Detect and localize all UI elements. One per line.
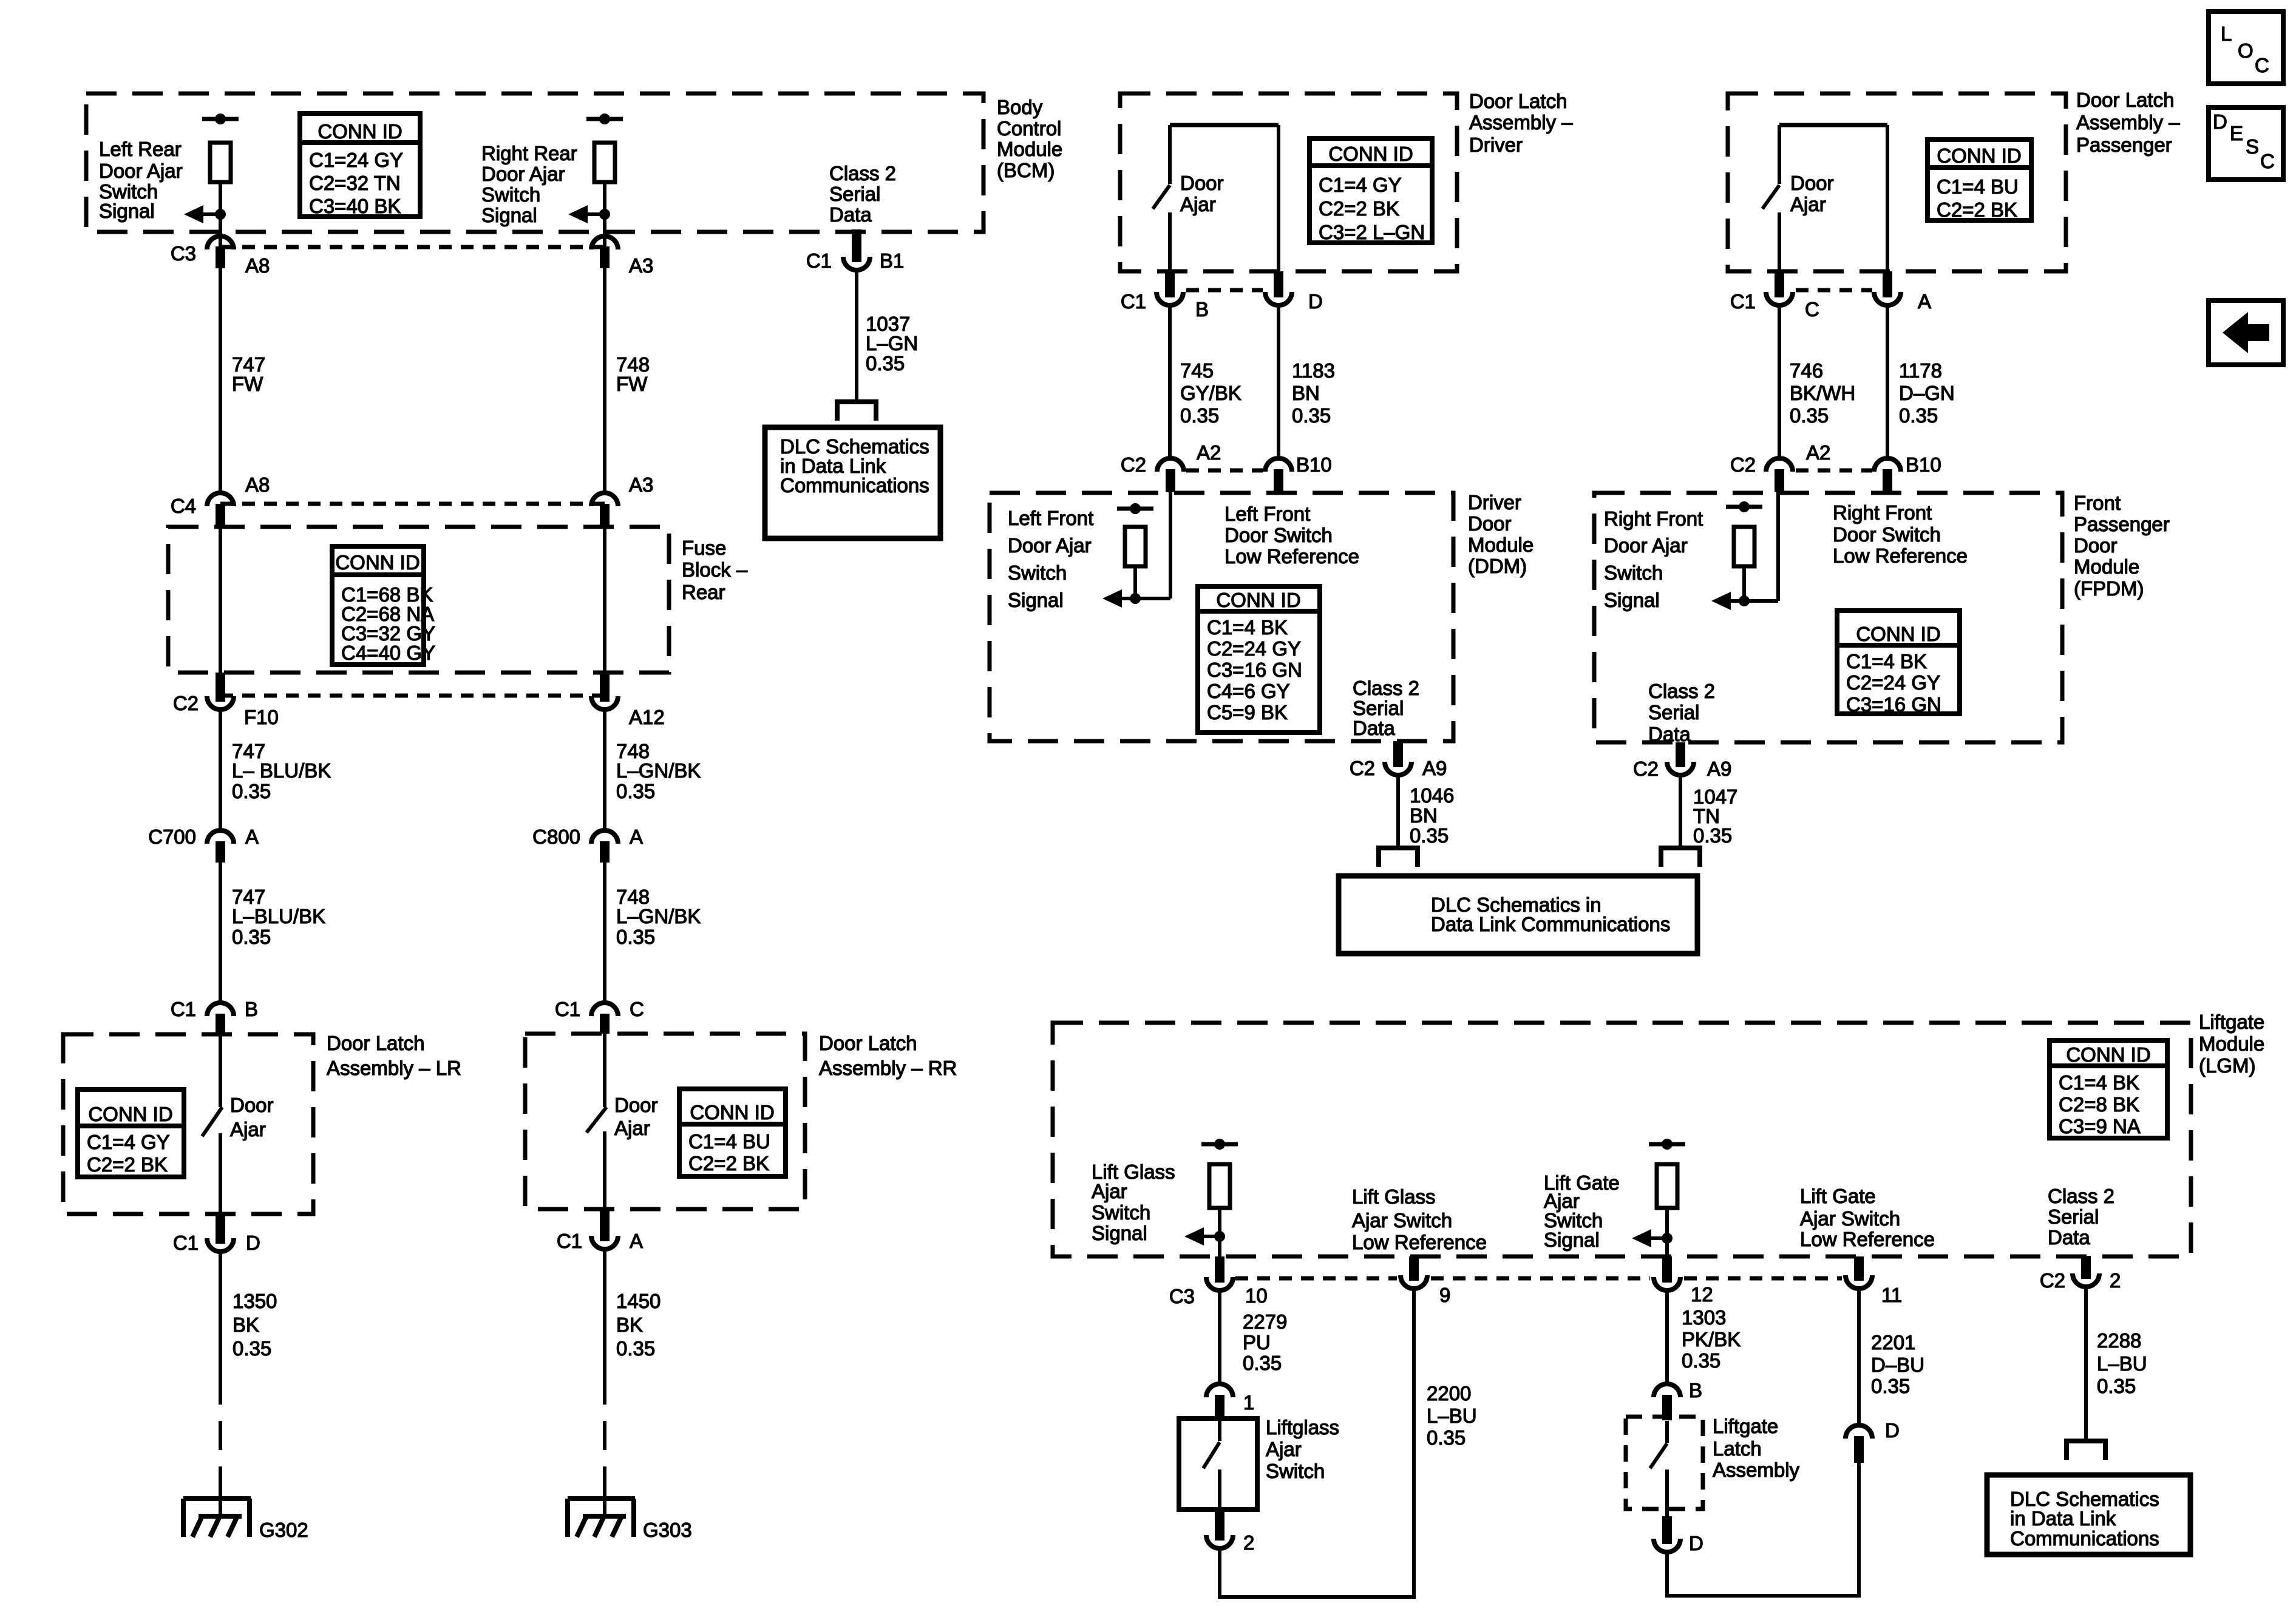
connector cup A12: [591, 696, 618, 710]
svg-text:BK/WH: BK/WH: [1790, 382, 1855, 404]
wire 1350 BK dashed to ground: [219, 1375, 222, 1482]
svg-text:Door: Door: [230, 1094, 274, 1116]
label Door Ajar driver: [1180, 172, 1224, 215]
connector cup 9: [1401, 1275, 1427, 1289]
svg-text:Door: Door: [1180, 172, 1224, 194]
label DLC Schematics (BCM): [780, 435, 929, 497]
svg-text:Low Reference: Low Reference: [1224, 545, 1359, 568]
label wire 1046 BN: [1410, 784, 1454, 847]
svg-text:A8: A8: [245, 254, 270, 277]
svg-text:D–GN: D–GN: [1899, 382, 1955, 404]
pin plug C3/10: [1215, 1256, 1224, 1283]
svg-text:A12: A12: [629, 706, 665, 728]
connector arc D inline: [1846, 1425, 1872, 1439]
icon LOC box: [2209, 12, 2283, 84]
svg-text:A: A: [630, 825, 643, 848]
svg-text:CONN ID: CONN ID: [1856, 623, 1940, 645]
pin plug 9: [1409, 1256, 1419, 1281]
svg-text:C1: C1: [806, 249, 832, 272]
box DLC Schematics (shared): [1339, 876, 1697, 954]
svg-text:C2=2 BK: C2=2 BK: [688, 1152, 769, 1175]
svg-text:C2=2 BK: C2=2 BK: [87, 1153, 168, 1176]
wire inside fuse block right: [603, 526, 606, 675]
svg-text:C2: C2: [1350, 757, 1375, 779]
svg-text:L–BLU/BK: L–BLU/BK: [232, 905, 325, 927]
svg-text:D: D: [1885, 1419, 1900, 1442]
svg-text:Left Front: Left Front: [1008, 507, 1093, 529]
wire 745 GY/BK: [1168, 307, 1172, 458]
wire DDM junction up to A2: [1169, 492, 1172, 598]
svg-text:FW: FW: [616, 373, 648, 395]
svg-text:CONN ID: CONN ID: [335, 551, 419, 574]
svg-text:GY/BK: GY/BK: [1180, 382, 1241, 404]
svg-text:0.35: 0.35: [1790, 404, 1829, 427]
svg-text:Right Front: Right Front: [1604, 507, 1703, 530]
box DLC Schematics (LGM): [1987, 1475, 2190, 1554]
label wire 2279 PU: [1243, 1310, 1287, 1374]
switch blade liftglass ajar: [1203, 1442, 1220, 1468]
icon back-arrow box: [2209, 300, 2283, 365]
svg-text:Switch: Switch: [1092, 1201, 1150, 1224]
svg-text:Class 2: Class 2: [1648, 680, 1715, 702]
connector cup C3/10: [1206, 1277, 1233, 1290]
wire 1303 PK/BK: [1665, 1290, 1669, 1384]
svg-text:12: 12: [1691, 1283, 1713, 1306]
wire 748 FW: [603, 268, 606, 493]
svg-text:C1=4 GY: C1=4 GY: [87, 1131, 170, 1153]
svg-text:Communications: Communications: [2010, 1527, 2159, 1550]
svg-text:0.35: 0.35: [1682, 1349, 1720, 1372]
label Liftglass Ajar Switch: [1266, 1416, 1339, 1482]
connector cup D (liftgate latch): [1654, 1539, 1680, 1552]
svg-text:B: B: [1689, 1379, 1702, 1402]
module box Door Latch Assembly - LR: [63, 1034, 313, 1214]
svg-text:L: L: [2221, 22, 2232, 45]
switch lower wire driver: [1168, 212, 1172, 273]
svg-text:Low Reference: Low Reference: [1800, 1228, 1935, 1250]
label LGM name: [2199, 1011, 2264, 1077]
arrow FPDM switch signal: [1711, 592, 1744, 610]
label Class 2 Serial Data (BCM): [829, 162, 896, 226]
connector arc C1/C (RR latch): [591, 1003, 618, 1016]
pin plug 2: [1215, 1510, 1224, 1541]
svg-text:11: 11: [1881, 1284, 1902, 1306]
off-page bracket to DLC (LGM): [2067, 1441, 2105, 1460]
connector cup C2/A9 DDM: [1385, 762, 1411, 775]
svg-text:Assembly – LR: Assembly – LR: [327, 1057, 461, 1079]
svg-text:(BCM): (BCM): [997, 159, 1055, 181]
off-page bracket to DLC (FPDM): [1661, 848, 1700, 867]
label Door Latch Assembly - LR: [327, 1032, 461, 1079]
svg-text:Serial: Serial: [829, 183, 880, 205]
svg-text:C1=24 GY: C1=24 GY: [309, 149, 403, 171]
pin plug B10 DDM: [1274, 469, 1283, 491]
svg-text:0.35: 0.35: [232, 926, 271, 948]
pin plug C1/A below RR latch: [600, 1209, 610, 1241]
connector arc B10 DDM: [1265, 458, 1292, 472]
switch blade Door Ajar passenger: [1762, 185, 1779, 209]
svg-text:Body: Body: [997, 96, 1043, 118]
switch fixed contact RR: [603, 1034, 606, 1107]
module box Front Passenger Door Module (FPDM): [1594, 493, 2062, 742]
module box Driver Door Module (DDM): [990, 493, 1453, 741]
switch lower wire LR: [219, 1133, 222, 1216]
svg-text:Door Latch: Door Latch: [2076, 89, 2174, 111]
svg-text:Driver: Driver: [1468, 491, 1521, 514]
svg-text:A: A: [630, 1230, 643, 1252]
module box Door Latch Assembly - RR: [525, 1034, 805, 1209]
label Lift Glass Ajar Switch Signal: [1092, 1161, 1175, 1244]
svg-text:1046: 1046: [1410, 784, 1454, 807]
label Door Ajar LR: [230, 1094, 274, 1141]
module box Fuse Block - Rear: [168, 527, 669, 673]
svg-text:0.35: 0.35: [616, 1337, 655, 1360]
svg-text:C4=6 GY: C4=6 GY: [1207, 680, 1290, 702]
svg-text:C2=8 BK: C2=8 BK: [2059, 1093, 2139, 1116]
wire 748 L-GN/BK lower: [603, 863, 606, 1002]
connector cup 12: [1654, 1277, 1680, 1290]
svg-text:A3: A3: [629, 254, 653, 277]
svg-text:Right Front: Right Front: [1833, 501, 1932, 524]
svg-text:C2: C2: [1633, 758, 1659, 780]
svg-text:Left Front: Left Front: [1224, 503, 1310, 525]
svg-text:C800: C800: [532, 825, 580, 848]
svg-text:L–GN/BK: L–GN/BK: [616, 759, 701, 782]
svg-text:Door Latch: Door Latch: [1469, 90, 1567, 112]
pin plug 1: [1215, 1395, 1224, 1420]
arrow right rear switch signal: [568, 205, 605, 223]
connector arc BCM C3 (left): [207, 236, 234, 249]
svg-text:Door: Door: [614, 1094, 658, 1116]
connector arc C2/A2 FPDM: [1766, 458, 1793, 472]
module box Door Latch Assembly - Passenger: [1728, 93, 2066, 271]
label Liftgate Latch Assembly: [1713, 1415, 1800, 1481]
svg-text:Door: Door: [2074, 534, 2118, 557]
pin plug C2 left: [216, 673, 225, 702]
svg-text:Assembly –: Assembly –: [1469, 111, 1573, 134]
ground G303: [568, 1499, 692, 1541]
label Class 2 Serial Data (LGM): [2048, 1185, 2114, 1249]
connector arc C1/B (LR latch): [207, 1003, 234, 1016]
connector cup C2/2: [2073, 1273, 2099, 1287]
module box Liftgate Module (LGM): [1053, 1023, 2191, 1256]
label wire 1450 BK: [616, 1290, 661, 1360]
svg-text:Ajar: Ajar: [1180, 193, 1216, 215]
svg-text:1178: 1178: [1899, 359, 1942, 382]
svg-text:Liftglass: Liftglass: [1266, 1416, 1339, 1439]
svg-text:C: C: [2260, 150, 2275, 172]
label Door Ajar RR: [614, 1094, 658, 1139]
label wire 747 L-BLU/BK lower: [232, 886, 325, 948]
svg-text:C3=2 L–GN: C3=2 L–GN: [1319, 221, 1425, 243]
svg-text:Assembly –: Assembly –: [2076, 111, 2180, 134]
svg-text:CONN ID: CONN ID: [318, 120, 402, 143]
svg-text:1183: 1183: [1292, 359, 1335, 382]
label Fuse Block - Rear: [682, 537, 748, 603]
pin plug C800/A: [600, 841, 610, 863]
svg-text:Liftgate: Liftgate: [2199, 1011, 2264, 1033]
connector cup A passenger: [1874, 292, 1901, 305]
resistor lift glass ajar signal: [1209, 1164, 1230, 1208]
svg-text:A: A: [245, 825, 259, 848]
svg-text:C2: C2: [1121, 453, 1146, 476]
terminal T-bar DDM signal: [1117, 503, 1153, 514]
connector cup 2: [1206, 1535, 1233, 1548]
dotted connector line BCM C3 row: [220, 245, 605, 249]
svg-text:Data: Data: [2048, 1226, 2090, 1249]
pin plug A2 DDM: [1166, 469, 1175, 492]
dotted connector line LGM row c: [1684, 1276, 1842, 1281]
switch fixed contact LR: [219, 1034, 222, 1107]
svg-text:2200: 2200: [1427, 1382, 1471, 1405]
arrow DDM switch signal: [1102, 589, 1135, 608]
svg-text:Signal: Signal: [99, 200, 155, 222]
svg-text:CONN ID: CONN ID: [1937, 144, 2021, 167]
junction dot left rear: [215, 209, 226, 220]
label Lift Gate Ajar Switch Low Reference: [1800, 1185, 1935, 1250]
connector cup C1/D: [207, 1238, 234, 1252]
connector arc pin 1: [1206, 1384, 1233, 1397]
label wire 1037 L-GN: [866, 313, 918, 375]
svg-text:Assembly: Assembly: [1713, 1459, 1800, 1481]
wire 1178 D-GN: [1886, 307, 1889, 458]
svg-text:C1=4 BU: C1=4 BU: [1937, 175, 2019, 198]
box Liftglass Ajar Switch: [1179, 1419, 1257, 1510]
connector arc C700: [207, 830, 234, 844]
svg-text:Communications: Communications: [780, 474, 929, 497]
wire lift glass resistor to junction: [1218, 1208, 1221, 1256]
wire FPDM resistor to junction: [1742, 566, 1746, 601]
switch right branch passenger: [1886, 125, 1889, 273]
svg-text:PU: PU: [1243, 1331, 1271, 1354]
connector cup C1/A: [591, 1236, 618, 1249]
wire stub to G303: [603, 1482, 606, 1516]
connector arc B10 FPDM: [1874, 458, 1901, 472]
svg-text:C2=24 GY: C2=24 GY: [1846, 671, 1940, 694]
svg-text:Serial: Serial: [2048, 1205, 2099, 1228]
switch lower wire liftglass: [1218, 1470, 1221, 1510]
wire 747 L-BLU/BK lower: [219, 863, 222, 1002]
svg-text:1303: 1303: [1682, 1306, 1726, 1329]
svg-text:C700: C700: [148, 825, 196, 848]
svg-text:C3: C3: [1169, 1285, 1195, 1307]
CONN ID table passenger latch: [1927, 140, 2031, 221]
svg-text:C1=4 BK: C1=4 BK: [2059, 1071, 2139, 1094]
switch top bar passenger: [1779, 123, 1887, 127]
svg-text:Ajar Switch: Ajar Switch: [1800, 1207, 1900, 1230]
svg-text:0.35: 0.35: [1427, 1426, 1466, 1449]
svg-text:Class 2: Class 2: [2048, 1185, 2114, 1207]
svg-text:C1=4 BK: C1=4 BK: [1207, 616, 1288, 639]
terminal T-bar left rear: [202, 114, 239, 124]
label wire 1047 TN: [1693, 785, 1737, 847]
svg-text:Door Ajar: Door Ajar: [481, 163, 565, 185]
CONN ID table LR latch: [78, 1090, 184, 1177]
svg-text:L–GN/BK: L–GN/BK: [616, 905, 701, 927]
CONN ID table DDM: [1198, 586, 1320, 733]
wire 1037 L-GN: [855, 270, 858, 402]
svg-text:C3: C3: [171, 242, 196, 265]
svg-text:0.35: 0.35: [866, 352, 905, 375]
CONN ID table FPDM: [1837, 611, 1960, 716]
svg-text:Block –: Block –: [682, 558, 748, 581]
svg-text:Serial: Serial: [1353, 697, 1404, 719]
svg-text:10: 10: [1245, 1284, 1268, 1307]
svg-text:CONN ID: CONN ID: [1328, 143, 1413, 165]
off-page bracket to DLC (BCM): [837, 402, 876, 421]
svg-text:Door Latch: Door Latch: [327, 1032, 424, 1054]
svg-text:(DDM): (DDM): [1468, 555, 1527, 577]
svg-text:Control: Control: [997, 117, 1061, 140]
label DLC Schematics LGM: [2010, 1488, 2159, 1550]
svg-text:Door Ajar: Door Ajar: [1008, 534, 1092, 557]
svg-text:0.35: 0.35: [232, 780, 271, 802]
svg-text:2: 2: [2110, 1269, 2121, 1292]
connector cup C1/B driver: [1156, 292, 1183, 305]
connector arc C800: [591, 830, 618, 844]
svg-text:1350: 1350: [233, 1290, 277, 1312]
svg-text:A9: A9: [1707, 758, 1731, 780]
svg-text:Ajar: Ajar: [1266, 1438, 1302, 1460]
svg-text:0.35: 0.35: [233, 1337, 271, 1360]
label wire 2288 L-BU: [2097, 1329, 2147, 1397]
svg-text:C1: C1: [1121, 290, 1146, 313]
svg-text:Switch: Switch: [1008, 561, 1067, 584]
label Lift Glass Ajar Switch Low Reference: [1352, 1185, 1487, 1253]
svg-text:C: C: [1805, 298, 1819, 320]
arrow lift glass switch signal: [1184, 1227, 1220, 1246]
icon DESC box: [2209, 107, 2283, 180]
wire 746 BK/WH: [1778, 307, 1781, 458]
dotted connector line LGM row a: [1235, 1276, 1397, 1281]
svg-text:0.35: 0.35: [616, 780, 655, 802]
svg-text:0.35: 0.35: [1693, 824, 1732, 847]
label Class 2 Serial Data (FPDM): [1648, 680, 1715, 745]
pin plug A8 left: [216, 246, 225, 268]
svg-text:1: 1: [1243, 1391, 1254, 1414]
switch lower wire passenger: [1778, 212, 1781, 273]
label wire 746 BK/WH: [1790, 359, 1855, 427]
svg-text:BN: BN: [1410, 804, 1438, 827]
svg-text:L–BU: L–BU: [1427, 1405, 1477, 1427]
junction dot right rear: [599, 209, 610, 220]
box DLC Schematics (BCM): [765, 427, 940, 538]
svg-text:Door Latch: Door Latch: [819, 1032, 917, 1054]
svg-text:Signal: Signal: [481, 204, 537, 226]
svg-text:C2: C2: [2040, 1269, 2065, 1292]
connector arc C2/A2 DDM: [1157, 458, 1184, 472]
pin plug D (liftgate latch): [1662, 1516, 1672, 1544]
pin plug C700/A: [216, 841, 225, 863]
svg-text:Liftgate: Liftgate: [1713, 1415, 1778, 1437]
pin plug C into RR latch: [600, 1014, 610, 1034]
svg-text:Switch: Switch: [1266, 1460, 1325, 1482]
svg-text:A8: A8: [245, 473, 270, 496]
svg-text:Door Ajar: Door Ajar: [99, 160, 183, 182]
wire 2200 L-BU vertical: [1412, 1290, 1416, 1599]
svg-text:Class 2: Class 2: [1353, 677, 1419, 699]
junction dot DDM: [1130, 593, 1141, 604]
svg-text:Fuse: Fuse: [682, 537, 726, 559]
svg-text:C4=40 GY: C4=40 GY: [341, 642, 435, 664]
label wire 1350 BK: [233, 1290, 277, 1360]
svg-text:D: D: [246, 1232, 260, 1254]
svg-text:BK: BK: [616, 1314, 643, 1336]
switch lower wire RR: [603, 1131, 606, 1214]
wire DDM junction horizontal: [1135, 597, 1170, 600]
svg-text:0.35: 0.35: [1871, 1375, 1910, 1397]
svg-text:Ajar: Ajar: [614, 1117, 650, 1139]
svg-text:B: B: [1195, 298, 1209, 320]
svg-text:C3=9 NA: C3=9 NA: [2059, 1115, 2141, 1137]
svg-text:Ajar: Ajar: [1790, 193, 1826, 215]
junction dot lift glass: [1214, 1231, 1225, 1242]
label wire 2200 L-BU: [1427, 1382, 1477, 1449]
label wire 748 L-GN/BK lower: [616, 886, 701, 948]
wire 1450 BK dashed to ground: [603, 1375, 606, 1482]
svg-text:Switch: Switch: [481, 183, 540, 206]
svg-text:C: C: [2255, 54, 2269, 76]
arrow lift gate switch signal: [1632, 1229, 1667, 1247]
ground G302: [183, 1499, 308, 1541]
svg-text:2288: 2288: [2097, 1329, 2141, 1352]
module box Liftgate Latch Assembly: [1626, 1417, 1703, 1509]
svg-text:C3=16 GN: C3=16 GN: [1846, 693, 1941, 716]
svg-text:745: 745: [1180, 359, 1214, 382]
wire 1350 BK solid: [219, 1252, 222, 1375]
svg-text:Ajar: Ajar: [1092, 1180, 1127, 1202]
wire 1450 BK solid: [603, 1249, 606, 1375]
svg-text:D: D: [2213, 110, 2227, 133]
label FPDM name: [2074, 492, 2170, 600]
CONN ID table RR latch: [679, 1089, 786, 1176]
wire inside fuse block left: [219, 526, 222, 675]
switch fixed contact liftglass: [1218, 1419, 1221, 1441]
label Left Rear Door Ajar Switch Signal: [99, 138, 183, 222]
dotted connector line passenger C1 row: [1796, 288, 1872, 293]
svg-text:0.35: 0.35: [1243, 1352, 1282, 1374]
pin plug C2/2: [2081, 1256, 2091, 1279]
module box BCM (Body Control Module): [86, 93, 983, 232]
dotted connector line LGM row b: [1431, 1276, 1650, 1281]
label wire 1183 BN: [1292, 359, 1335, 427]
svg-text:Data: Data: [1648, 723, 1691, 745]
svg-text:G303: G303: [643, 1519, 692, 1541]
dotted connector line C4 row: [220, 502, 605, 506]
svg-text:Ajar: Ajar: [230, 1118, 266, 1141]
svg-text:C1=4 BK: C1=4 BK: [1846, 650, 1927, 673]
label wire 745 GY/BK: [1180, 359, 1241, 427]
connector arc C4 (left): [207, 493, 234, 506]
svg-text:0.35: 0.35: [1410, 824, 1449, 847]
resistor right rear door ajar pull-up: [594, 143, 615, 182]
wire stub to G302: [219, 1482, 222, 1516]
svg-text:Left Rear: Left Rear: [99, 138, 182, 160]
svg-text:L–BU: L–BU: [2097, 1352, 2147, 1375]
wire 2279 PU: [1218, 1290, 1221, 1384]
svg-text:B10: B10: [1906, 453, 1941, 476]
label wire 1178 D-GN: [1899, 359, 1955, 427]
CONN ID table BCM: [300, 114, 420, 217]
svg-text:2201: 2201: [1871, 1331, 1915, 1354]
svg-text:C1: C1: [555, 998, 580, 1020]
pin plug B: [1662, 1395, 1672, 1420]
svg-text:2: 2: [1243, 1531, 1254, 1554]
svg-text:B10: B10: [1296, 453, 1332, 476]
pin plug C1/D below LR latch: [216, 1214, 225, 1244]
svg-text:C2=2 BK: C2=2 BK: [1937, 198, 2017, 221]
dotted connector line DDM C2 row: [1186, 469, 1263, 473]
